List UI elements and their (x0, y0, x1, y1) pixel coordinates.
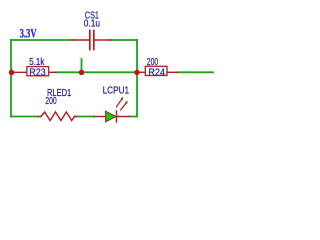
LED LCPU1 anode lead (94, 116, 106, 118)
wire bottom rail between RLED1 and LED (77, 116, 95, 118)
wire top rail right (111, 39, 137, 41)
wire right vertical (136, 40, 138, 117)
capacitor CS1 left lead (72, 39, 89, 41)
svg-text:200: 200 (45, 96, 57, 107)
wire bottom rail left (11, 116, 38, 118)
svg-text:R23: R23 (29, 67, 46, 78)
LED LCPU1 triangle (106, 111, 116, 122)
wire stub above middle row (81, 59, 83, 72)
svg-text:R24: R24 (148, 67, 165, 78)
wire left vertical (10, 40, 12, 117)
svg-text:3.3V: 3.3V (20, 25, 37, 40)
capacitor CS1 right lead (95, 39, 112, 41)
LED LCPU1 cathode lead (117, 116, 130, 118)
wire top rail left (3.3V net) (11, 39, 72, 41)
wire bottom rail right of LED (130, 116, 138, 118)
resistor RLED1 left lead (38, 116, 41, 118)
resistor R23 body (27, 67, 49, 76)
LED LCPU1 emission arrow 2 (121, 101, 128, 110)
LED LCPU1 cathode bar (116, 111, 118, 122)
resistor RLED1 right lead (75, 116, 77, 118)
resistor R24 right lead (167, 71, 178, 73)
resistor R23 right lead (49, 71, 56, 73)
resistor R23 left lead (12, 71, 27, 73)
junction node at R24 input (134, 70, 140, 76)
wire middle row right of R24 (178, 71, 214, 73)
svg-text:200: 200 (147, 57, 159, 68)
junction node at R23 input (9, 70, 15, 76)
svg-text:0.1u: 0.1u (84, 19, 100, 30)
wire middle row segment R23 to stub junction (56, 71, 137, 73)
svg-text:LCPU1: LCPU1 (103, 85, 130, 96)
junction node at capacitor stub (79, 70, 85, 76)
resistor R24 body (145, 66, 167, 75)
capacitor CS1 plates (90, 31, 94, 50)
resistor R24 left lead (137, 71, 145, 73)
LED LCPU1 emission arrow 1 (116, 97, 123, 107)
resistor RLED1 zigzag body (41, 112, 75, 121)
